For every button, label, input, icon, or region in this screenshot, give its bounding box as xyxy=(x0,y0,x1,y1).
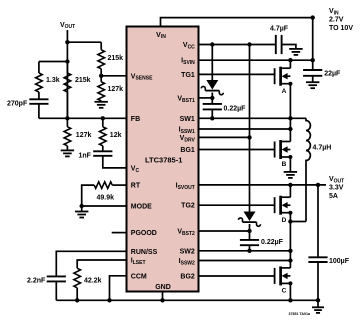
pin label VBST2 xyxy=(177,229,195,237)
transistor QC (NMOS) xyxy=(275,266,293,294)
wire QD source down / SW2 vertical xyxy=(289,213,291,268)
svg-text:FB: FB xyxy=(131,116,140,123)
wire D1 anode xyxy=(211,45,213,81)
wire TG1 line xyxy=(199,73,275,75)
wire ISSW1 line xyxy=(199,128,291,130)
svg-text:B: B xyxy=(282,161,287,168)
junction ISSW2-vertical xyxy=(288,258,292,262)
svg-text:VOUT: VOUT xyxy=(329,176,344,184)
wire VBST2 to IC xyxy=(199,230,250,232)
junction 1.3k branch xyxy=(65,59,69,63)
junction 0.22uF-SW1 xyxy=(210,116,214,120)
pin label ISVOUT xyxy=(176,182,195,190)
ground under 127k-B xyxy=(95,102,108,108)
junction MODE node xyxy=(80,204,84,208)
svg-text:PGOOD: PGOOD xyxy=(131,230,157,237)
capacitor 1nF xyxy=(79,151,113,159)
diode D1 schottky xyxy=(201,80,223,95)
wire 127k-B top lead xyxy=(100,76,102,82)
junction QC-rail xyxy=(288,298,292,302)
pin label RT xyxy=(131,183,141,190)
pin label SW1 xyxy=(180,116,195,123)
wire SW1 line xyxy=(199,117,307,119)
wire PGOOD stub xyxy=(112,232,127,234)
junction rail end xyxy=(316,298,320,302)
pin label PGOOD xyxy=(131,230,157,237)
svg-text:RUN/SS: RUN/SS xyxy=(131,249,158,256)
wire QC source to rail xyxy=(289,283,291,300)
wire VDRV vertical xyxy=(249,45,251,212)
wire ground rail xyxy=(56,299,318,301)
pin label ISSW1 xyxy=(179,127,195,135)
wire BG1 line xyxy=(199,149,275,151)
pin label SW2 xyxy=(180,248,195,255)
svg-text:TG2: TG2 xyxy=(181,203,195,210)
wire 127k-B to ground xyxy=(100,101,102,102)
terminal VIN xyxy=(311,15,315,19)
wire 1.3k top lead xyxy=(38,62,40,74)
wire VBST1 to IC xyxy=(199,97,213,99)
junction CCM-rail xyxy=(107,298,111,302)
svg-text:BG1: BG1 xyxy=(180,147,195,154)
pin label VBST1 xyxy=(177,95,195,103)
svg-text:5A: 5A xyxy=(329,193,338,200)
junction VSENSE node xyxy=(99,74,103,78)
svg-text:49.9k: 49.9k xyxy=(97,195,115,202)
svg-text:42.2k: 42.2k xyxy=(84,278,102,285)
wire 2.2nF to rail xyxy=(55,281,57,300)
svg-text:2.7V: 2.7V xyxy=(329,16,344,23)
capacitor 2.2nF xyxy=(27,276,66,284)
junction FB-12k xyxy=(101,116,105,120)
wire 215k-A top lead xyxy=(100,42,102,50)
ground at rail end xyxy=(312,307,324,313)
resistor 215k (to VSENSE) xyxy=(98,50,123,69)
wire VCC line xyxy=(199,44,276,46)
pin label ISSW2 xyxy=(179,258,195,266)
svg-text:VOUT: VOUT xyxy=(60,22,75,30)
resistor 42.2k xyxy=(74,268,102,288)
svg-text:SW1: SW1 xyxy=(180,116,195,123)
wire VOUT stem down xyxy=(66,30,68,42)
pin label GND (bottom) xyxy=(155,284,171,291)
node VOUT label (top left) xyxy=(60,22,75,30)
wire VSENSE to IC xyxy=(101,75,126,77)
wire CCM xyxy=(110,276,127,301)
wire rail-end ground stem xyxy=(317,300,319,307)
pin label MODE xyxy=(131,204,152,211)
wire inductor bottom link xyxy=(290,221,306,223)
pin label BG2 xyxy=(180,274,195,281)
svg-text:A: A xyxy=(282,88,287,95)
wire FB line xyxy=(39,117,127,119)
svg-text:TO 10V: TO 10V xyxy=(329,25,353,32)
junction FB-215k xyxy=(65,116,69,120)
junction QD source-inductor xyxy=(288,219,292,223)
ground under MODE node xyxy=(75,212,88,218)
IC U1 LTC3785-1 body xyxy=(127,27,199,292)
svg-text:1.3k: 1.3k xyxy=(46,77,60,84)
diode D2 schottky xyxy=(239,212,261,227)
svg-text:RT: RT xyxy=(131,183,141,190)
junction VBST2 xyxy=(247,229,251,233)
ground under 22uF xyxy=(306,82,319,88)
svg-text:4.7µF: 4.7µF xyxy=(270,26,289,33)
pin label VSENSE xyxy=(131,73,153,81)
junction VDRV xyxy=(247,135,251,139)
wire QD drain up xyxy=(289,185,291,197)
wire ILSET xyxy=(77,260,126,268)
resistor 1.3k xyxy=(36,73,60,92)
svg-text:22µF: 22µF xyxy=(324,71,341,78)
svg-text:SW2: SW2 xyxy=(180,248,195,255)
wire VIN top xyxy=(161,18,313,27)
wire VBST2 to 0.22uF xyxy=(249,231,251,240)
capacitor 22uF xyxy=(303,70,341,78)
junction VOUT-100uF xyxy=(316,183,320,187)
wire MODE node to ground xyxy=(81,206,83,212)
wire VIN vertical xyxy=(312,18,314,70)
svg-text:37851 TA01a: 37851 TA01a xyxy=(288,312,311,316)
node VOUT output label xyxy=(329,176,344,200)
svg-text:0.22µF: 0.22µF xyxy=(261,239,284,246)
inductor 4.7uH xyxy=(306,118,331,221)
wire RUN/SS xyxy=(56,251,126,276)
wire 12k top lead xyxy=(102,118,104,127)
svg-text:0.22µF: 0.22µF xyxy=(224,105,247,112)
wire GND pin stem xyxy=(162,292,164,301)
wire BG2 line xyxy=(199,275,275,277)
wire VOUT line (ISVOUT) xyxy=(199,184,327,186)
junction ISSW1-vertical xyxy=(288,127,292,131)
transistor QD (NMOS) xyxy=(275,196,293,224)
wire SW2 line xyxy=(199,250,291,252)
wire 1.3k to 270pF xyxy=(38,92,40,99)
pin label VC xyxy=(131,165,140,173)
svg-text:GND: GND xyxy=(155,284,171,291)
junction 42.2k-rail xyxy=(75,298,79,302)
capacitor 0.22uF (BST1) xyxy=(203,104,246,112)
wire VBST1 to 0.22uF xyxy=(211,98,213,104)
svg-text:2.2nF: 2.2nF xyxy=(27,277,46,284)
pin label TG1 xyxy=(181,72,195,79)
figure tag 37851 TA01a xyxy=(288,312,311,316)
junction VBST1 xyxy=(210,96,214,100)
transistor QB (NMOS) xyxy=(275,140,293,168)
wire QB source to ground xyxy=(289,157,291,172)
svg-text:BG2: BG2 xyxy=(180,274,195,281)
ground under 4.7uF xyxy=(289,49,302,55)
ground under 127k-D xyxy=(61,150,74,156)
wire 1nF to VC pin xyxy=(103,156,127,168)
svg-text:C: C xyxy=(282,288,287,295)
wire 22uF to ground xyxy=(312,76,314,82)
wire top branch horizontal xyxy=(67,41,101,43)
resistor 215k (FB upper) xyxy=(64,62,91,119)
pin label BG1 xyxy=(180,147,195,154)
svg-text:127k: 127k xyxy=(108,86,124,93)
wire D2 cathode to VBST2 xyxy=(249,224,251,231)
svg-text:3.3V: 3.3V xyxy=(329,184,344,191)
svg-text:TG1: TG1 xyxy=(181,72,195,79)
wire 270pF to FB line xyxy=(38,104,40,119)
wire ISVIN line xyxy=(199,59,313,61)
ground under QB xyxy=(284,172,297,178)
wire TG2 line xyxy=(199,204,275,206)
wire 127k-D to ground xyxy=(66,146,68,151)
junction VOUT/top branch xyxy=(65,40,69,44)
wire VDRV to IC xyxy=(199,136,250,138)
svg-text:215k: 215k xyxy=(75,77,91,84)
wire QA source down / SW1 vertical xyxy=(289,84,291,142)
svg-text:1nF: 1nF xyxy=(79,152,92,159)
capacitor 270pF xyxy=(7,99,49,107)
svg-text:12k: 12k xyxy=(110,132,122,139)
wire to 1.3k branch xyxy=(39,61,68,63)
junction VOUT-QD drain xyxy=(288,183,292,187)
svg-text:D: D xyxy=(282,217,287,224)
junction VCC-VDRV xyxy=(247,42,251,46)
svg-text:LTC3785-1: LTC3785-1 xyxy=(145,155,182,164)
svg-text:MODE: MODE xyxy=(131,204,152,211)
wire ISSW2 line xyxy=(199,260,291,262)
resistor 12k xyxy=(100,127,122,146)
svg-text:4.7µH: 4.7µH xyxy=(313,144,332,151)
pin label VCC xyxy=(183,42,195,50)
svg-text:127k: 127k xyxy=(76,132,92,139)
resistor 127k (VSENSE divider) xyxy=(98,82,123,101)
wire 215k-A bottom lead xyxy=(100,69,102,76)
svg-text:100µF: 100µF xyxy=(329,258,350,265)
capacitor 0.22uF (BST2) xyxy=(240,239,284,246)
resistor 127k (FB lower) xyxy=(64,127,91,146)
junction GND-rail xyxy=(160,298,164,302)
junction VCC-D1 xyxy=(210,42,214,46)
junction SW2-vertical xyxy=(288,249,292,253)
pin label FB xyxy=(131,116,140,123)
pin label VIN (top) xyxy=(156,32,166,40)
wire 4.7uF to ground xyxy=(282,45,296,49)
resistor 49.9k xyxy=(94,182,114,202)
svg-text:CCM: CCM xyxy=(131,273,147,280)
wire 49.9k to MODE node xyxy=(82,185,95,206)
svg-text:VIN: VIN xyxy=(329,8,339,16)
junction ISVIN-QA drain xyxy=(288,58,292,62)
wire 127k-D top lead xyxy=(66,118,68,127)
node VIN label xyxy=(329,8,353,32)
pin label RUN/SS xyxy=(131,249,158,256)
wire RT pin lead xyxy=(112,184,126,186)
junction SW1-vertical xyxy=(288,116,292,120)
pin label TG2 xyxy=(181,203,195,210)
capacitor 100uF xyxy=(308,185,349,300)
wire 12k to 1nF xyxy=(102,146,104,152)
wire D1 cathode to VBST1 xyxy=(211,93,213,98)
wire QA drain up xyxy=(289,60,291,68)
junction 0.22uF-SW2 xyxy=(247,249,251,253)
wire 0.22uF to SW2 xyxy=(249,245,251,251)
pin label VDRV xyxy=(180,135,196,143)
pin label ILSET xyxy=(131,258,146,266)
svg-text:270pF: 270pF xyxy=(7,101,28,108)
wire 42.2k to rail xyxy=(76,288,78,301)
svg-text:215k: 215k xyxy=(108,55,124,62)
capacitor 4.7uF xyxy=(270,26,289,55)
junction VIN-ISVIN xyxy=(311,58,315,62)
pin label CCM xyxy=(131,273,147,280)
pin label ISVIN xyxy=(181,58,195,66)
wire VOUT vertical xyxy=(66,42,68,118)
wire 0.22uF to SW1 xyxy=(211,109,213,118)
wire MODE to IC xyxy=(82,205,127,207)
transistor QA (NMOS) xyxy=(275,67,293,95)
